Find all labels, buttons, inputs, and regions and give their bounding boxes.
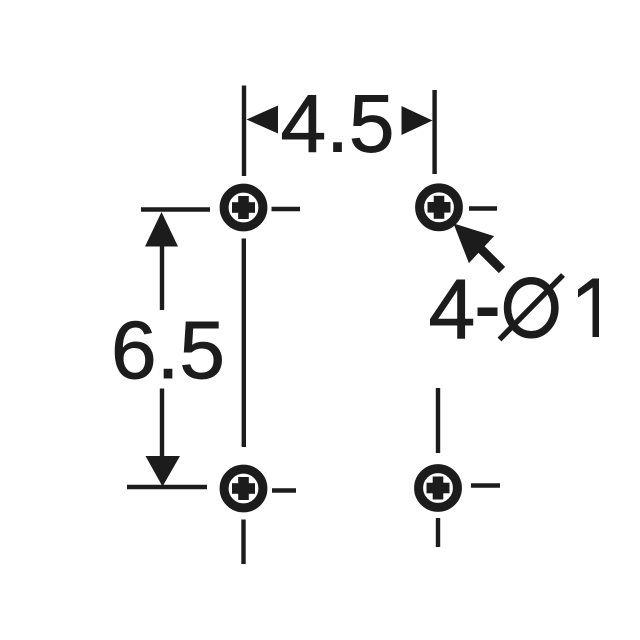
arrowhead down of 6.5 dimension [146, 456, 181, 487]
hole (bottom-right) [419, 469, 458, 508]
leader digit 1 (drawn, no foot serif) [578, 279, 599, 338]
6.5 dimension line upper segment [160, 244, 164, 310]
extension line bottom of 6.5 dimension [127, 485, 207, 489]
arrowhead up of 6.5 dimension [145, 212, 178, 247]
6.5 dimension line lower segment [160, 389, 164, 459]
extension line top of 6.5 dimension [141, 207, 210, 211]
wire: right dash of bottom-right hole [471, 483, 500, 487]
wire: vertical line joining left holes [242, 239, 246, 448]
arrowhead right of 4.5 dimension [402, 106, 433, 135]
wire: right dash of top-left hole [272, 207, 301, 211]
leader arrowhead pointing at top-right hole [453, 223, 494, 263]
wire: right dash of bottom-left hole [272, 488, 296, 492]
extension line left of 4.5 dimension [242, 86, 246, 177]
hole (bottom-left) [224, 469, 263, 508]
wire: up tail of bottom-right hole [436, 388, 440, 453]
svg-text:4: 4 [429, 262, 476, 356]
leader text hyphen (drawn) [478, 308, 498, 317]
wire: right dash of top-right hole [469, 206, 497, 210]
svg-text:4.5: 4.5 [281, 79, 395, 170]
extension line right of 4.5 dimension [432, 90, 436, 174]
wire: down tail of bottom-right hole [436, 518, 440, 547]
arrowhead left of 4.5 dimension [247, 106, 279, 134]
svg-text:6.5: 6.5 [111, 305, 225, 396]
leader glyph diameter symbol O-slash [500, 275, 564, 340]
hole (top-right) [420, 188, 459, 227]
leader arrow shaft [478, 246, 502, 270]
wire: down tail of bottom-left hole [241, 520, 245, 565]
hole (top-left) [224, 188, 263, 227]
